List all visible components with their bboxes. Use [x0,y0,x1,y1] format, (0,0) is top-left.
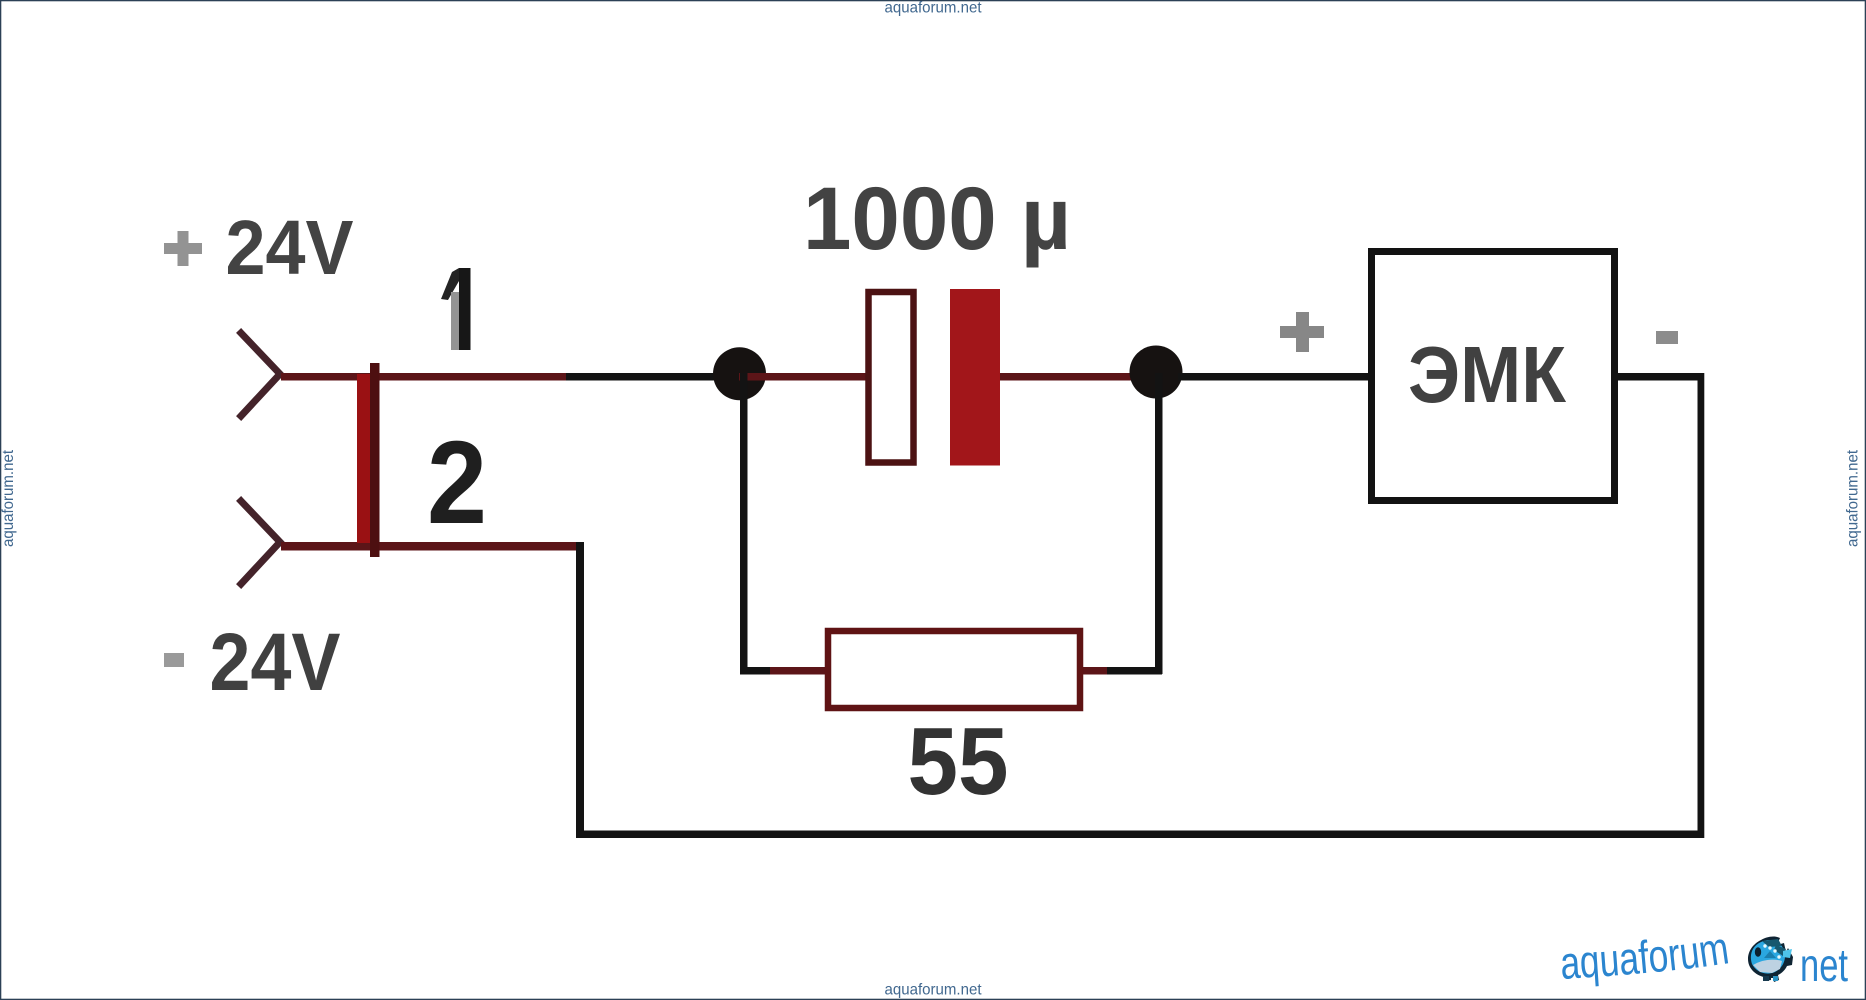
wire left drop from chevron 2 corner [576,542,584,838]
node A junction dot [713,347,766,400]
svg-text:net: net [1800,939,1848,991]
node B junction dot [1130,346,1183,399]
wire EMK right to riser [1614,373,1702,381]
logo aquaforum bottom right [1559,921,1849,991]
wire right riser to EMK minus [1698,373,1705,838]
svg-text:aquaforum.net: aquaforum.net [885,0,983,17]
polarity minus at EMK [1656,331,1678,344]
svg-text:aquaforum.net: aquaforum.net [1845,449,1862,547]
svg-text:2: 2 [427,417,487,549]
wire node B corner to resistor right [1085,667,1162,675]
wire capacitor right plate to node B [1000,373,1133,381]
svg-text:ЭМК: ЭМК [1408,330,1566,419]
wire bottom maroon from chevron 2 [281,542,580,551]
power label +24V [164,243,202,254]
pin number 1 [441,268,459,300]
wire node A down to resistor [740,373,748,671]
resistor R 55 body [828,631,1080,708]
polarity plus at EMK [1280,326,1324,338]
wire top black into node A [566,373,740,381]
svg-text:55: 55 [908,708,1009,815]
capacitor right plate [950,289,1000,466]
connector switch bar [357,374,371,543]
wire node A corner to resistor left [740,667,780,675]
svg-text:aquaforum.net: aquaforum.net [0,449,17,547]
svg-text:24V: 24V [210,617,341,708]
svg-text:aquaforum.net: aquaforum.net [885,982,983,999]
block EMK box [1372,252,1615,501]
power label -24V [164,653,184,667]
wire bottom return [576,831,1704,839]
svg-text:1000 µ: 1000 µ [803,168,1071,268]
connector chevron pin 2 [241,501,280,584]
wire node B to EMK plus [1178,373,1368,381]
wire node B down to resistor [1155,373,1163,674]
capacitor left plate [869,292,914,463]
logo fish icon [1748,937,1793,982]
wire node A to capacitor left plate [739,373,866,381]
svg-text:24V: 24V [226,205,354,291]
wire top maroon from chevron 1 to node A [281,373,574,381]
connector chevron pin 1 [241,333,280,416]
